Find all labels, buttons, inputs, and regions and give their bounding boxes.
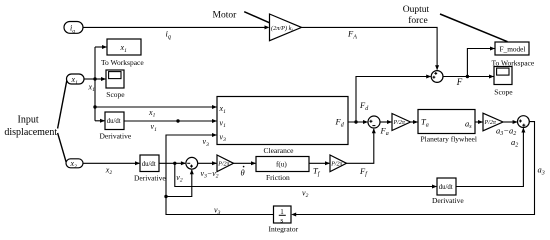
- wire F sum output to Scope2: [443, 75, 494, 79]
- svg-text:Motor: Motor: [213, 10, 238, 20]
- annotation line Output force: [440, 14, 508, 42]
- junction Fd: [354, 120, 357, 123]
- junction x1 line: [93, 105, 96, 108]
- wire a3 from sum circle right down and left to Integrator: [291, 122, 534, 217]
- svg-text:Clearance: Clearance: [264, 146, 295, 155]
- junction v1: [176, 119, 179, 122]
- wire Fd from Clearance to Fa sum circle: [348, 120, 368, 124]
- wire x2 oval to Derivative2: [83, 161, 140, 165]
- svg-text:f(u): f(u): [276, 161, 287, 169]
- annotation line to x1 oval: [58, 81, 67, 129]
- gain P/2pi 4: [483, 113, 503, 131]
- svg-text:(2π/P) kt: (2π/P) kt: [271, 25, 293, 32]
- sum circle F: [431, 71, 443, 83]
- block Derivative2: [140, 155, 159, 172]
- wire F branch up to F_model: [467, 47, 495, 77]
- junction v2: [173, 162, 176, 165]
- wire x1 trunk vertical: [94, 47, 96, 121]
- wire x1 long line to Clearance: [95, 105, 217, 109]
- svg-text:Derivative: Derivative: [134, 174, 166, 183]
- block Scope2: [494, 67, 512, 85]
- block Clearance: [217, 97, 348, 145]
- sum signs a3 circle: [519, 120, 525, 127]
- svg-text:du/dt: du/dt: [142, 161, 156, 168]
- annotation line to x2 oval: [58, 133, 67, 162]
- wire gain to Planetary flywheel: [411, 120, 419, 124]
- gain P/2pi 3: [392, 114, 411, 131]
- wire a2 from Derivative3 up into a sum circle bottom: [456, 128, 525, 187]
- sum signs Fa circle: [369, 120, 375, 126]
- wire v1 from Derivative1 to Clearance: [124, 119, 217, 123]
- svg-text:Scope: Scope: [494, 87, 513, 96]
- block F_model To Workspace: [495, 42, 529, 55]
- junction F output: [466, 75, 469, 78]
- svg-text:P/2π: P/2π: [217, 162, 230, 168]
- junction x1 scope: [93, 77, 96, 80]
- sum signs F circle: [433, 72, 438, 79]
- svg-text:s: s: [280, 216, 283, 225]
- junction v3: [164, 195, 167, 198]
- gain P/2pi 1: [217, 155, 234, 172]
- block Integrator: [274, 206, 292, 223]
- wire trunk to Derivative1: [95, 119, 105, 123]
- svg-text:force: force: [408, 15, 428, 26]
- gain P/2pi 2: [330, 155, 347, 172]
- svg-text:P/2π: P/2π: [393, 120, 406, 126]
- wire v3-v2 sum to gain P/2pi 1: [198, 161, 217, 165]
- input port oval iq: [64, 22, 83, 34]
- wire trunk to To Workspace: [95, 45, 107, 49]
- block To Workspace x1: [107, 39, 141, 55]
- input port oval x1: [67, 74, 85, 84]
- wire Tf from f(u) to gain P/2pi 2: [309, 161, 330, 165]
- input port oval x2: [66, 159, 83, 168]
- svg-text:F_model: F_model: [500, 45, 526, 54]
- wire Fd branch up into F sum circle left: [356, 75, 431, 123]
- svg-text:θ: θ: [241, 167, 245, 177]
- wire iq from input oval to motor gain: [83, 25, 270, 29]
- block Scope1: [106, 70, 124, 88]
- sum signs v3-v2 circle: [187, 163, 193, 167]
- block Friction f(u): [256, 157, 309, 172]
- svg-text:P/2π: P/2π: [484, 120, 497, 126]
- svg-text:du/dt: du/dt: [107, 118, 121, 125]
- sum circle a3: [518, 116, 530, 128]
- wire theta to Friction f(u): [234, 161, 257, 165]
- svg-text:F: F: [456, 77, 463, 87]
- svg-text:Ouptut: Ouptut: [403, 5, 430, 15]
- svg-text:displacement: displacement: [4, 127, 57, 138]
- gain motor (2pi/P)kt: [270, 14, 302, 41]
- wire flywheel to gain P/2pi 4: [475, 120, 483, 124]
- svg-text:Friction: Friction: [266, 173, 290, 182]
- wire x1 oval to trunk: [84, 78, 95, 80]
- svg-text:P/2π: P/2π: [330, 162, 343, 168]
- wire v3 branch to sum circle bottom: [166, 169, 194, 196]
- annotation line Motor: [244, 12, 270, 23]
- svg-text:Derivative: Derivative: [432, 196, 464, 205]
- svg-text:Planetary flywheel: Planetary flywheel: [421, 135, 477, 144]
- block Derivative1: [105, 112, 124, 130]
- svg-text:To Workspace: To Workspace: [101, 58, 144, 67]
- wire v2 branch down and right to Derivative3: [175, 163, 437, 188]
- svg-text:Integrator: Integrator: [269, 224, 299, 233]
- wire v2 from Derivative2 to sum circle: [159, 161, 186, 165]
- label integrator 1/s: [279, 208, 286, 225]
- svg-text:du/dt: du/dt: [439, 184, 453, 191]
- svg-text:Scope: Scope: [106, 90, 125, 99]
- wire Ff from gain2 up into Fa sum circle bottom: [347, 128, 376, 163]
- svg-text:Derivative: Derivative: [100, 132, 132, 141]
- block Planetary flywheel: [418, 110, 475, 134]
- svg-text:To Workspace: To Workspace: [492, 59, 535, 68]
- sum circle v3-v2: [186, 157, 198, 169]
- wire v3 from Integrator left up to Clearance input: [166, 133, 274, 215]
- wire gain4 to a sum circle: [503, 120, 518, 124]
- sum circle Fa: [368, 116, 380, 128]
- wire trunk to Scope: [95, 77, 106, 81]
- wire Fa sum to gain P/2pi: [380, 120, 392, 124]
- block Derivative3: [437, 178, 456, 195]
- wire FA from motor gain tip to F sum circle top: [302, 27, 440, 70]
- svg-text:Input: Input: [18, 114, 39, 125]
